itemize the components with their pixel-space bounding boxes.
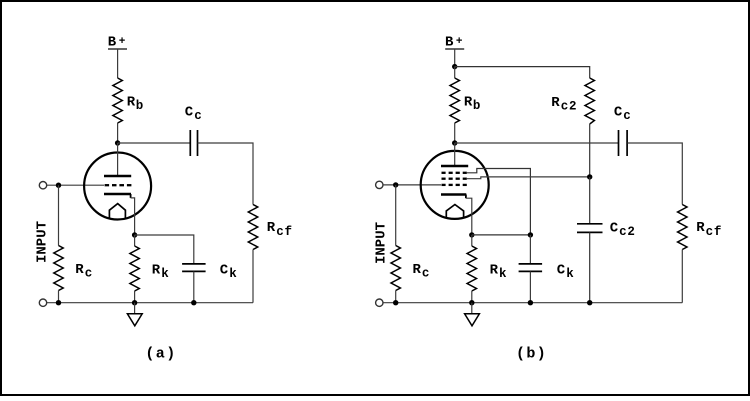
resistor Rk (a) (130, 246, 139, 291)
resistor Rc2 (b) (585, 78, 594, 124)
capacitor Ck (a) (182, 264, 206, 272)
svg-text:c: c (85, 267, 93, 281)
label B+ (a) (108, 35, 126, 51)
B+ supply terminal (b) (445, 48, 464, 50)
label Rb (b) (464, 95, 481, 114)
resistor Rc (a) (54, 246, 63, 291)
pentode V2 control grid (b) (442, 184, 467, 186)
node plate junction (a) (115, 140, 120, 145)
svg-text:(b): (b) (516, 346, 547, 363)
pentode V2 cathode (b) (441, 195, 466, 199)
svg-text:c: c (194, 109, 202, 123)
wire Ck to rail (b) (529, 272, 531, 303)
svg-text:R: R (696, 220, 705, 236)
label Rcf (b) (696, 220, 722, 239)
node Rk rail junction (b) (469, 300, 474, 305)
svg-text:b: b (473, 99, 481, 113)
node cathode junction (b) (469, 232, 474, 237)
wire Rc to rail (a) (58, 291, 60, 303)
label INPUT (a) (35, 221, 51, 263)
wire input to grid (b) (383, 184, 441, 186)
wire Rb to plate node (b) (454, 123, 456, 143)
resistor Rk (b) (467, 246, 476, 291)
pentode V2 plate (b) (441, 165, 468, 168)
wire screen grid to screen node (b) (467, 177, 590, 179)
triode V1 heater (a) (109, 204, 125, 219)
wire input node to Rc (b) (395, 185, 397, 246)
label B+ (b) (445, 35, 463, 51)
node Rk rail junction (a) (132, 300, 137, 305)
caption (a) (145, 346, 176, 363)
wire top rail to Rc2 (b) (455, 67, 590, 78)
capacitor Cc (a) (190, 130, 197, 156)
resistor Rc (b) (391, 246, 400, 291)
svg-text:c: c (422, 267, 430, 281)
wire Ck to rail (a) (193, 272, 195, 303)
input terminal top (b) (376, 181, 383, 188)
node Ck rail junction (a) (191, 300, 196, 305)
triode V1 cathode (a) (104, 194, 131, 198)
node input junction (a) (56, 183, 61, 188)
caption (b) (516, 346, 547, 363)
wire rail ground stub (b) (471, 303, 473, 314)
wire Ck top lead (b) (529, 235, 531, 264)
svg-text:cf: cf (706, 225, 723, 239)
svg-text:R: R (413, 262, 422, 278)
svg-text:k: k (161, 267, 169, 281)
svg-text:C: C (557, 262, 566, 278)
wire plate node to Cc (b) (455, 142, 619, 144)
pentode V2 plate lead (b) (454, 143, 456, 166)
label Rk (b) (490, 262, 508, 281)
ground symbol (b) (465, 314, 480, 326)
wire cathode node to Ck (a) (135, 235, 194, 264)
wire cathode lead (a) (131, 198, 135, 235)
svg-text:k: k (229, 267, 237, 281)
wire input to grid (a) (47, 184, 104, 186)
capacitor Cc (b) (619, 130, 628, 156)
svg-text:R: R (267, 220, 276, 236)
label Ck (a) (220, 262, 238, 281)
wire Rb to plate node (a) (117, 123, 119, 143)
capacitor Cc2 (b) (577, 224, 603, 233)
svg-text:c2: c2 (561, 100, 578, 114)
triode V1 envelope (a) (84, 153, 151, 220)
svg-text:R: R (127, 95, 136, 111)
wire screen node to Cc2 (b) (589, 177, 591, 224)
label INPUT (b) (374, 222, 390, 264)
label Rcf (a) (267, 220, 293, 239)
node Rc rail junction (b) (393, 300, 398, 305)
node Rc rail junction (a) (56, 300, 61, 305)
wire Rcf to ground rail (a) (252, 250, 254, 303)
wire Rc2 to screen node (b) (589, 124, 591, 177)
svg-text:INPUT: INPUT (35, 221, 51, 263)
wire cathode node to Rk (a) (134, 235, 136, 246)
node plate junction (b) (452, 140, 457, 145)
label Rc (b) (413, 262, 431, 281)
wire Rk to rail (a) (134, 291, 136, 303)
wire Cc to Rcf (a) (198, 143, 253, 205)
wire rail ground stub (a) (134, 303, 136, 314)
wire B+ to top node (b) (454, 49, 456, 67)
ground symbol (a) (127, 314, 142, 326)
label Rc (a) (75, 262, 93, 281)
label Rb (a) (127, 95, 144, 114)
wire B+ to Rb (a) (117, 49, 119, 78)
triode V1 grid (a) (105, 184, 132, 186)
svg-text:b: b (136, 99, 144, 113)
node B+ junction (b) (452, 64, 457, 69)
label Cc (b) (614, 105, 632, 124)
wire cathode node to suppressor column (b) (472, 234, 531, 236)
triode V1 plate lead (a) (117, 143, 119, 176)
resistor Rb (a) (113, 78, 122, 123)
svg-text:R: R (490, 262, 499, 278)
label Cc (a) (185, 105, 203, 124)
svg-text:INPUT: INPUT (374, 222, 390, 264)
capacitor Ck (b) (519, 264, 543, 272)
node cathode junction (a) (132, 232, 137, 237)
wire Cc to Rcf (b) (627, 143, 682, 205)
label Rk (a) (152, 262, 170, 281)
triode V1 plate (a) (104, 175, 131, 178)
input terminal bottom (b) (376, 299, 383, 306)
pentode V2 envelope (b) (421, 151, 489, 219)
resistor Rb (b) (450, 78, 459, 123)
wire B+ node to Rb (b) (454, 67, 456, 78)
B+ supply terminal (a) (108, 48, 127, 50)
wire Rk to rail (b) (471, 291, 473, 303)
wire Rc to rail (b) (395, 291, 397, 303)
input terminal top (a) (39, 182, 46, 189)
svg-text:C: C (185, 105, 194, 121)
svg-text:C: C (220, 262, 229, 278)
wire input node to Rc (a) (58, 185, 60, 245)
node Cc2 rail junction (b) (587, 300, 592, 305)
wire cathode node to Rk (b) (471, 235, 473, 246)
svg-text:C: C (610, 220, 619, 236)
ground rail (b) (383, 302, 682, 304)
pentode V2 heater (b) (446, 205, 463, 218)
pentode V2 suppressor grid (b) (442, 172, 467, 174)
svg-text:c: c (623, 109, 631, 123)
wire Rcf to ground rail (b) (681, 250, 683, 303)
resistor Rcf (b) (678, 205, 687, 250)
node input junction (b) (393, 182, 398, 187)
resistor Rcf (a) (248, 205, 257, 250)
svg-text:k: k (566, 267, 574, 281)
input terminal bottom (a) (39, 299, 46, 306)
node Ck rail junction (b) (528, 300, 533, 305)
wire Cc2 to rail (b) (589, 232, 591, 302)
node suppressor-Ck junction (b) (528, 232, 533, 237)
wire cathode lead (b) (466, 198, 472, 235)
label Rc2 (b) (551, 95, 577, 114)
svg-text:R: R (464, 95, 473, 111)
svg-text:R: R (75, 262, 84, 278)
svg-text:k: k (499, 267, 507, 281)
wire plate node to Cc (a) (118, 142, 191, 144)
label Ck (b) (557, 262, 575, 281)
svg-text:c2: c2 (619, 225, 636, 239)
wire suppressor to cathode (b) (467, 169, 531, 235)
pentode V2 screen grid (b) (442, 178, 467, 180)
ground rail (a) (47, 302, 253, 304)
svg-text:(a): (a) (145, 346, 176, 363)
node screen junction (b) (587, 174, 592, 179)
svg-text:cf: cf (276, 225, 293, 239)
svg-text:C: C (614, 105, 623, 121)
svg-text:R: R (152, 262, 161, 278)
label Cc2 (b) (610, 220, 636, 239)
svg-text:R: R (551, 95, 560, 111)
